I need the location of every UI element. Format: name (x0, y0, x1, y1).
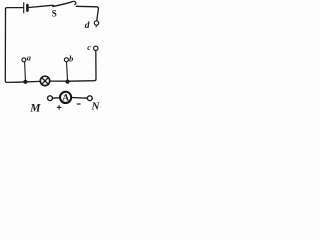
junction dot under b (65, 80, 69, 84)
plus sign (57, 105, 62, 109)
terminal N circle (87, 96, 92, 101)
wire lamp to b junction (50, 80, 70, 82)
terminal a (22, 58, 26, 62)
lamp L (40, 76, 49, 85)
switch pivot dot (52, 5, 54, 7)
svg-text:A: A (62, 94, 69, 104)
svg-text:S: S (52, 9, 57, 19)
minus sign (77, 103, 81, 105)
svg-text:M: M (29, 103, 41, 115)
svg-text:a: a (27, 54, 31, 63)
wire a junction to lamp (18, 80, 40, 83)
junction dot under a (23, 80, 27, 84)
terminal M circle (48, 96, 53, 101)
terminal d (94, 21, 98, 25)
terminal b (64, 58, 68, 62)
wire battery to switch (29, 5, 52, 7)
battery long plate (23, 3, 25, 13)
battery short thick plate (26, 5, 29, 11)
svg-text:b: b (69, 53, 73, 63)
wire d stub (95, 25, 97, 27)
wire M to ammeter (53, 97, 60, 100)
wire stub a (24, 62, 27, 80)
switch S blade (53, 2, 70, 6)
wire left side down (5, 9, 18, 82)
wire ammeter to N (71, 97, 87, 100)
wire top-left to battery (6, 8, 23, 9)
switch blade tip hook (71, 1, 76, 4)
svg-text:N: N (91, 101, 101, 113)
ammeter A (60, 92, 71, 103)
svg-text:c: c (87, 43, 91, 52)
wire c to lamp row (70, 51, 96, 82)
wire switch to top-right corner (76, 6, 98, 20)
wire stub b (67, 62, 68, 80)
svg-text:d: d (85, 21, 90, 31)
terminal c (94, 46, 98, 50)
